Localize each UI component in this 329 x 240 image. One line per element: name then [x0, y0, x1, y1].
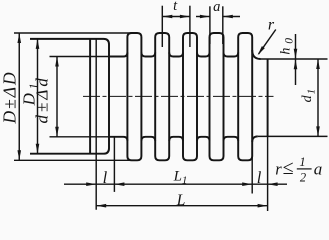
svg-text:a: a — [213, 0, 220, 15]
svg-text:t: t — [173, 0, 178, 14]
svg-text:1: 1 — [299, 155, 305, 169]
svg-text:d1: d1 — [300, 89, 318, 103]
svg-text:a: a — [314, 160, 323, 179]
svg-text:L1: L1 — [173, 169, 188, 187]
svg-text:r: r — [268, 17, 275, 34]
svg-text:d±Δd: d±Δd — [33, 75, 52, 123]
svg-text:L: L — [176, 192, 186, 209]
svg-text:D±ΔD: D±ΔD — [0, 70, 20, 124]
svg-text:≤: ≤ — [283, 157, 294, 179]
svg-text:l: l — [257, 168, 262, 187]
svg-text:2: 2 — [300, 171, 306, 185]
svg-text:r: r — [275, 160, 282, 179]
svg-text:l: l — [103, 168, 108, 187]
svg-text:h0: h0 — [278, 38, 295, 55]
